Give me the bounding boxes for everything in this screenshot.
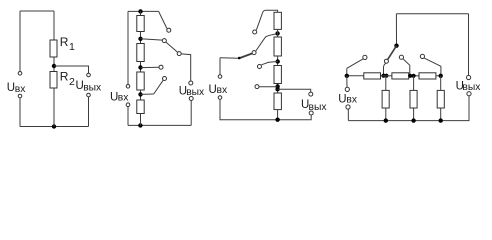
wire Uvyx down: [88, 97, 90, 127]
svg-text:вх: вх: [118, 93, 129, 104]
svg-text:вых: вых: [309, 102, 328, 113]
wire R2 down: [53, 88, 55, 127]
wire bus seg2: [381, 75, 392, 77]
wire bus seg3: [409, 75, 419, 77]
resistor series B: [392, 73, 409, 79]
wire bottom: [20, 126, 89, 128]
wire left vertical: [127, 11, 129, 84]
wire shunt3 top lead: [440, 76, 442, 91]
contact top: [253, 30, 257, 34]
resistor R1: [50, 40, 57, 57]
contact tap2: [162, 39, 166, 43]
resistor series C: [419, 73, 436, 79]
wire left lower: [127, 107, 129, 126]
node mid junction: [52, 64, 56, 68]
wire input top: [220, 57, 239, 59]
svg-text:вых: вых: [83, 82, 102, 93]
wire top: [128, 10, 159, 12]
wire tap4 c3: [259, 86, 277, 88]
terminal Uvx2 bottom: [126, 103, 130, 107]
terminal Uvyx2 top: [189, 81, 193, 85]
contact output: [177, 52, 181, 56]
node output c3: [275, 87, 279, 91]
terminal Uvyx top: [87, 73, 91, 77]
wire shunt2 top lead: [413, 76, 415, 91]
contact node4: [420, 54, 424, 58]
node junction bottom: [52, 124, 56, 128]
junction bulge: [238, 57, 241, 60]
svg-text:R: R: [60, 35, 69, 49]
switch arm node4: [424, 58, 441, 76]
wire box3-box4 c3: [277, 84, 279, 94]
wire tap to Uvyx: [54, 66, 89, 73]
resistor chain3 box3: [274, 66, 281, 84]
switch arm node1: [347, 59, 363, 68]
wire contact to bus node2: [384, 63, 386, 76]
wire Uvyx4 down: [348, 96, 469, 121]
resistor chain box2: [137, 44, 144, 62]
wire box2-box3 c3: [277, 56, 279, 66]
node bus2b: [384, 74, 388, 78]
wire Uvx3 down: [219, 99, 221, 120]
terminal Uvyx2 bottom: [189, 97, 193, 101]
node shunt2 bottom: [411, 118, 415, 122]
contact node3: [399, 55, 403, 59]
resistor shunt3: [437, 90, 444, 108]
node bus3b: [412, 74, 416, 78]
resistor R2: [50, 72, 57, 89]
wire top rail: [396, 13, 468, 15]
wire chain top lead: [140, 11, 142, 15]
wire input column lower: [347, 109, 349, 121]
wire shunt2 bottom lead: [413, 108, 415, 121]
svg-text:вх: вх: [217, 85, 228, 96]
switch arm top hanging: [256, 13, 262, 30]
node bus1: [345, 74, 349, 78]
wire box4 down c3: [277, 110, 279, 120]
resistor shunt2: [410, 90, 417, 108]
node top junction: [138, 9, 142, 13]
wire box2-box3: [140, 62, 142, 73]
contact closed switch: [384, 59, 388, 63]
terminal Uvx4 top: [345, 87, 349, 91]
svg-text:1: 1: [69, 41, 75, 53]
wire post node1: [346, 68, 348, 76]
resistor chain3 box2: [274, 37, 281, 56]
terminal Uvx3 bottom: [218, 96, 222, 100]
switch arm mid-tap2: [256, 34, 278, 51]
svg-text:U: U: [338, 93, 346, 105]
wire rail right vertical: [468, 14, 470, 76]
wire left vertical: [19, 11, 21, 72]
wire input vertical: [219, 58, 221, 75]
switch arm closed (thick): [388, 46, 397, 60]
terminal Uvyx4 bottom: [467, 92, 471, 96]
wire top: [20, 10, 54, 12]
terminal Uvyx3 top: [309, 92, 313, 96]
node tap4c3: [275, 84, 279, 88]
node arm pivot: [394, 44, 398, 48]
wire bottom: [220, 115, 311, 120]
node tap2c3: [275, 31, 279, 35]
node tap2: [138, 37, 142, 41]
wire box1-box2: [140, 32, 142, 44]
contact tap3 c3: [258, 65, 262, 69]
resistor chain box3: [137, 72, 144, 90]
svg-text:вых: вых: [186, 87, 205, 98]
node tap4: [138, 92, 142, 96]
resistor series A: [364, 73, 381, 79]
wire R1-R2: [53, 57, 55, 72]
wire output branch c3: [278, 89, 311, 92]
contact tap4: [163, 77, 167, 81]
node bottom junction: [138, 123, 142, 127]
wire input column upper: [346, 76, 348, 88]
contact tap4 c3: [255, 85, 259, 89]
wire bus seg4: [436, 75, 442, 77]
resistor shunt1: [382, 90, 389, 108]
switch arm input (thick): [239, 53, 253, 58]
wire shunt1 top lead: [385, 76, 387, 91]
wire chain top bend: [262, 10, 277, 13]
node tap3c3: [276, 59, 280, 63]
terminal Uvyx bottom: [87, 93, 91, 97]
node tap3: [138, 65, 142, 69]
svg-text:вх: вх: [15, 84, 26, 95]
node bottom c3: [275, 118, 279, 122]
resistor chain3 box1: [274, 12, 281, 29]
wire rail left vertical: [395, 14, 397, 45]
svg-text:вых: вых: [462, 82, 481, 93]
switch arm tap2-output: [166, 42, 178, 52]
svg-text:2: 2: [69, 76, 75, 88]
terminal Uvx4 bottom: [346, 105, 350, 109]
terminal Uvx bottom: [18, 94, 22, 98]
wire tap3 c3: [262, 62, 278, 65]
wire tap4: [141, 93, 154, 95]
resistor chain3 box4: [274, 93, 281, 110]
contact node1: [363, 55, 367, 59]
switch arm tap1: [159, 11, 167, 28]
resistor chain box4: [137, 100, 144, 114]
wire box3-box4: [140, 90, 142, 100]
terminal Uvyx4 top: [467, 75, 471, 79]
resistor chain box1: [137, 16, 144, 32]
contact mid: [252, 51, 256, 55]
wire Uvyx2 down: [190, 101, 192, 126]
terminal Uvx3 top: [218, 75, 222, 79]
wire bus seg1: [347, 75, 364, 77]
terminal Uvx2 top: [126, 85, 130, 89]
wire right upper: [53, 11, 55, 40]
wire shunt3 bottom lead: [440, 108, 442, 121]
svg-text:R: R: [60, 70, 69, 84]
contact tap1: [167, 28, 171, 32]
switch arm tap4: [154, 80, 163, 94]
node bus4: [439, 74, 443, 78]
wire tap3: [141, 66, 159, 68]
wire bottom: [128, 124, 191, 126]
node shunt3 bottom: [439, 118, 443, 122]
svg-text:вх: вх: [346, 95, 357, 106]
terminal Uvx top: [18, 72, 22, 76]
node bus3a: [408, 74, 412, 78]
terminal Uvyx3 bottom: [309, 111, 313, 115]
wire box1-box2 c3: [277, 29, 279, 37]
node shunt1 bottom: [384, 118, 388, 122]
wire box4 down: [140, 114, 142, 126]
wire output to vertical: [181, 54, 190, 81]
wire left lower: [19, 98, 21, 127]
wire shunt1 bottom lead: [385, 108, 387, 121]
wire tap2: [141, 39, 163, 40]
node bus2a: [381, 74, 385, 78]
switch arm node3: [403, 59, 410, 76]
contact tap3: [159, 65, 163, 69]
